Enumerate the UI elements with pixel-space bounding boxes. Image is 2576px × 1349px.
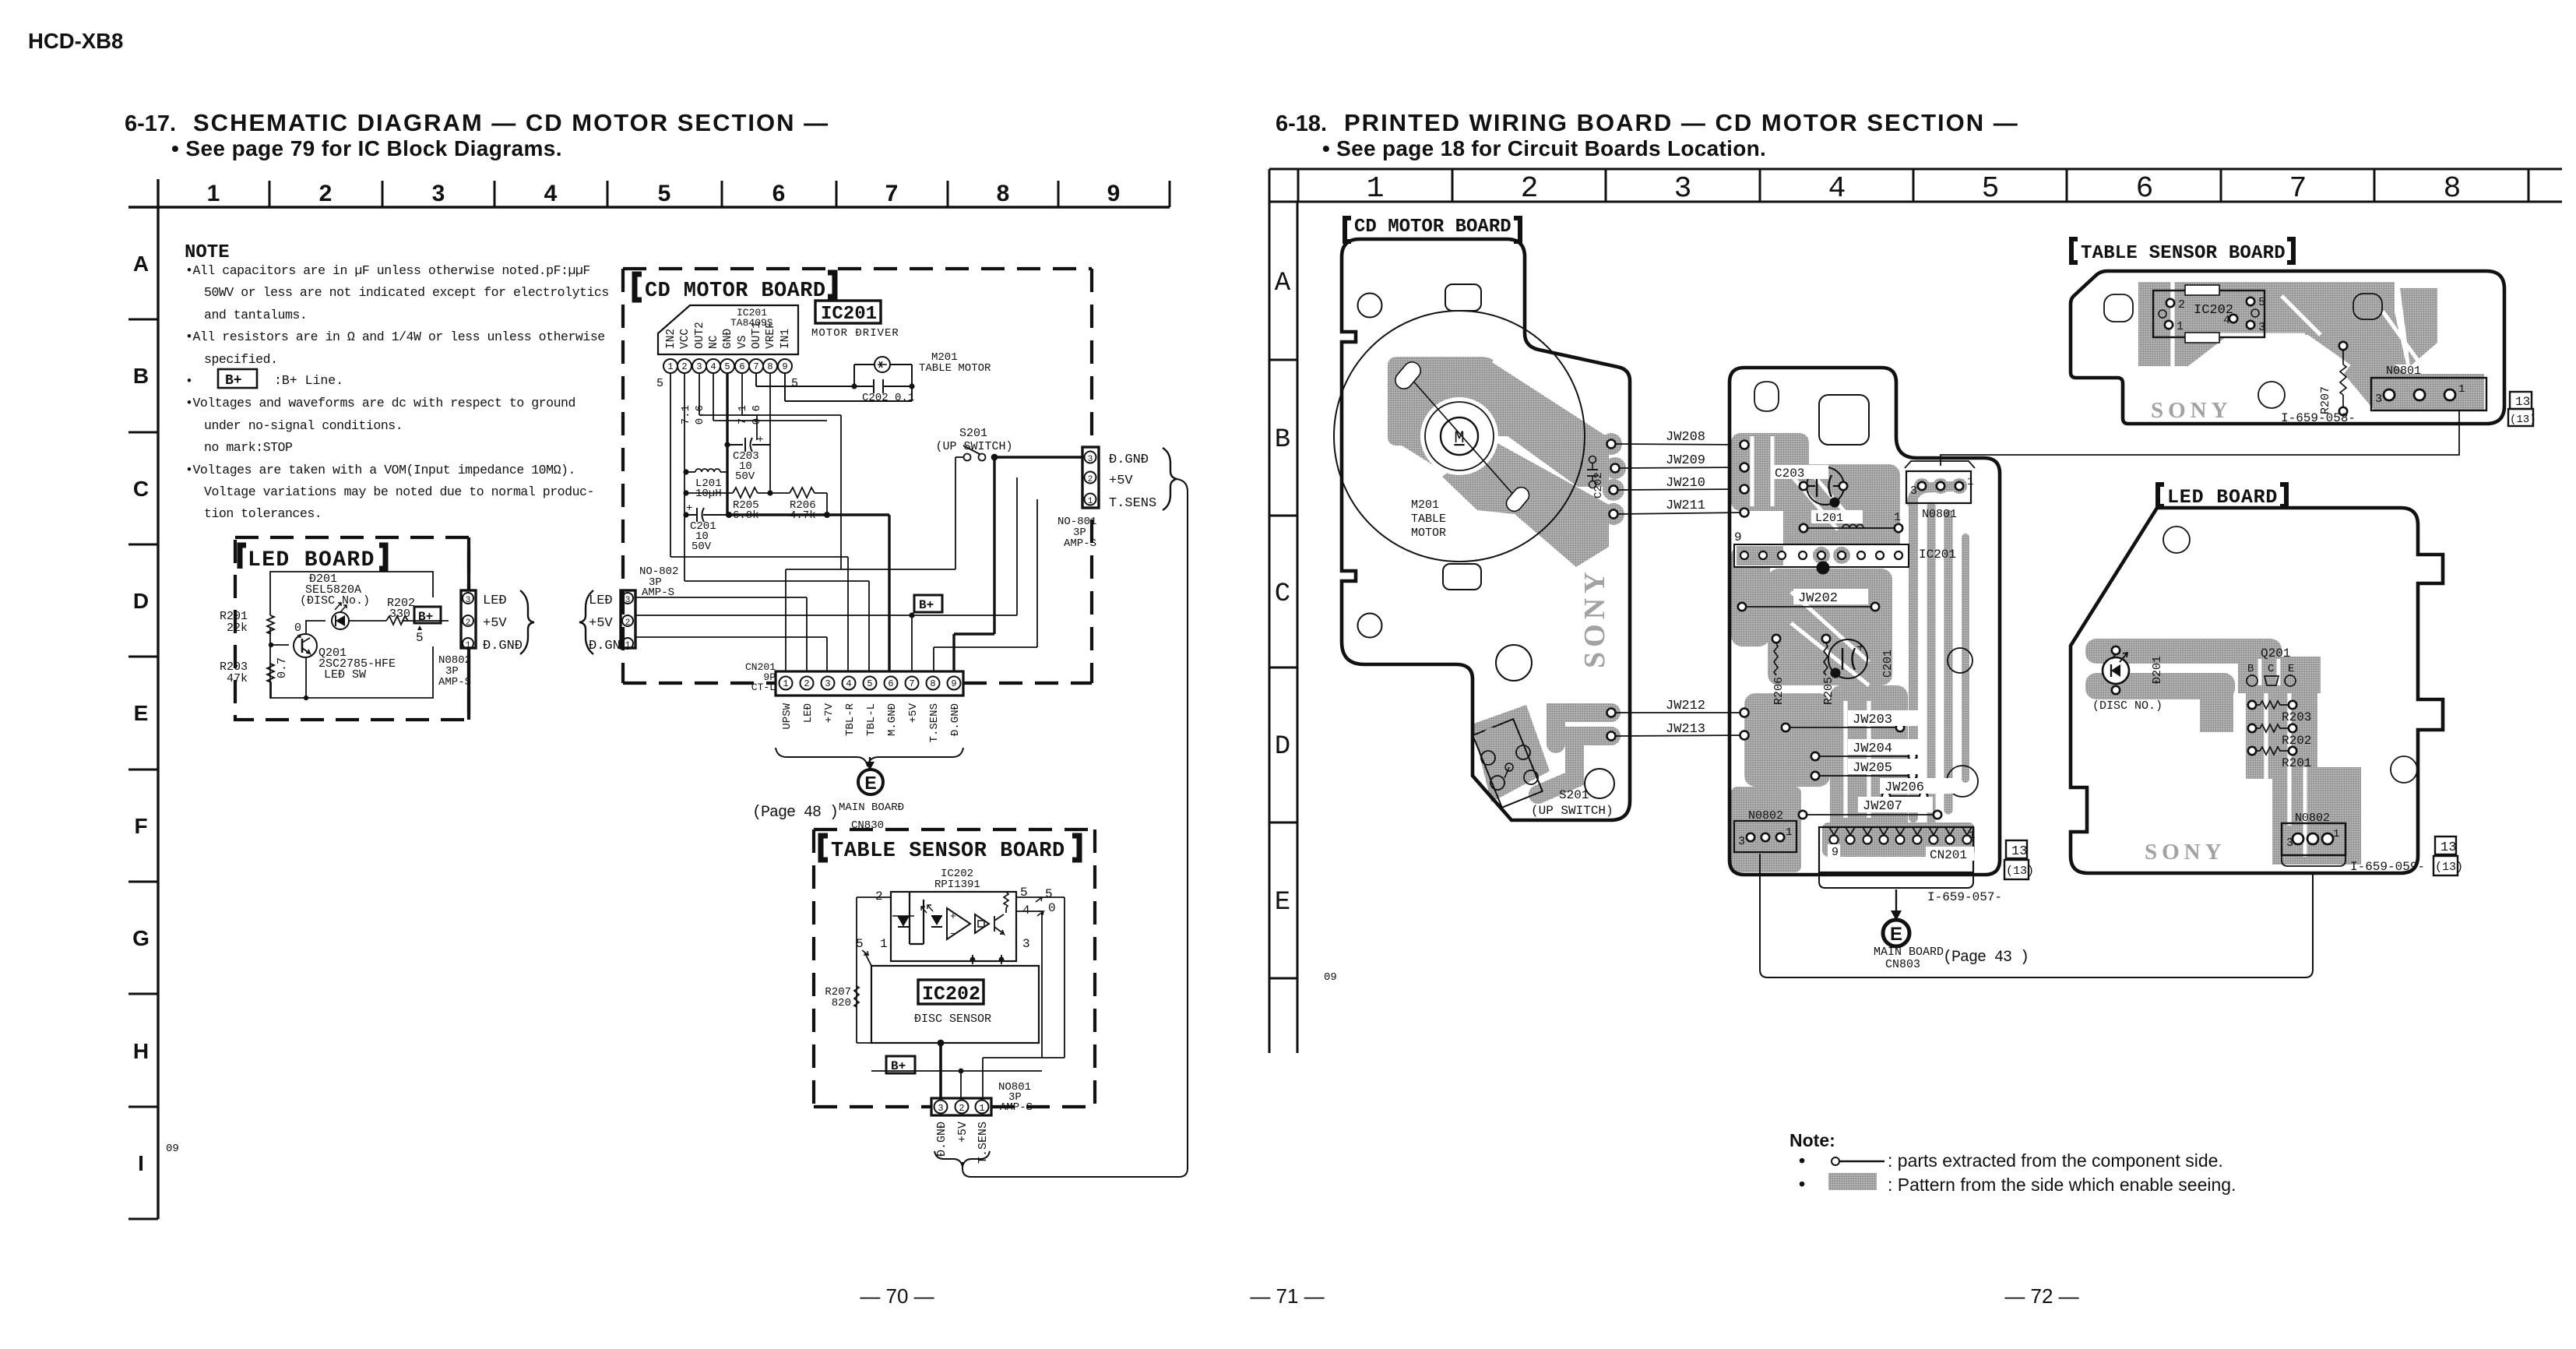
svg-text:−: − <box>950 928 956 940</box>
svg-text:R202: R202 <box>2282 734 2311 748</box>
svg-text:09: 09 <box>1324 971 1337 984</box>
svg-text:T.SENS: T.SENS <box>1109 496 1156 511</box>
svg-text:6: 6 <box>772 181 786 206</box>
svg-text:7: 7 <box>909 678 914 689</box>
svg-text:: Pattern from the side which: : Pattern from the side which enable see… <box>1888 1175 2236 1195</box>
svg-text:9: 9 <box>782 361 787 372</box>
svg-text:•: • <box>1799 1150 1805 1171</box>
svg-text:F: F <box>134 814 147 838</box>
svg-text:C: C <box>1275 579 1290 609</box>
svg-text:Đ.GNĐ: Đ.GNĐ <box>483 639 523 653</box>
svg-text:1: 1 <box>1367 172 1385 206</box>
svg-text:+: + <box>1856 641 1864 656</box>
svg-text:3: 3 <box>696 361 702 372</box>
svg-text:under no-signal conditions.: under no-signal conditions. <box>204 418 403 433</box>
svg-text:VCC: VCC <box>679 329 692 349</box>
svg-text:1: 1 <box>1894 511 1901 524</box>
svg-text:E: E <box>864 773 876 793</box>
svg-text:S201: S201 <box>959 427 987 440</box>
svg-text:AMP-S: AMP-S <box>1000 1101 1033 1114</box>
svg-text:330: 330 <box>389 608 410 621</box>
svg-text:2: 2 <box>804 678 809 689</box>
svg-text:M.GNĐ: M.GNĐ <box>886 703 899 736</box>
svg-text:no mark:STOP: no mark:STOP <box>204 440 293 455</box>
svg-text:09: 09 <box>166 1143 179 1155</box>
svg-text:T.SENS: T.SENS <box>977 1122 990 1164</box>
svg-text:LED BOARD: LED BOARD <box>2167 486 2278 509</box>
svg-text:6: 6 <box>2136 172 2154 206</box>
svg-text:•: • <box>185 374 192 389</box>
svg-text:GNĐ: GNĐ <box>722 329 734 349</box>
svg-text:7: 7 <box>2289 172 2307 206</box>
svg-text:3: 3 <box>1674 172 1692 206</box>
svg-text:5: 5 <box>724 361 730 372</box>
svg-text:3: 3 <box>938 1103 943 1114</box>
svg-text:(UP SWITCH): (UP SWITCH) <box>935 440 1012 453</box>
svg-text:A: A <box>133 252 149 276</box>
svg-text:0: 0 <box>1048 901 1056 915</box>
svg-text:4: 4 <box>2223 314 2230 327</box>
svg-text:C201: C201 <box>1881 650 1895 678</box>
svg-text:3: 3 <box>1738 835 1745 848</box>
svg-text:50V: 50V <box>692 541 712 553</box>
svg-text:(ĐISC No.): (ĐISC No.) <box>300 594 370 608</box>
svg-text:LED BOARD: LED BOARD <box>248 548 375 572</box>
svg-text:ĐISC SENSOR: ĐISC SENSOR <box>914 1013 991 1026</box>
svg-text:4: 4 <box>846 678 851 689</box>
svg-text:D: D <box>1275 732 1290 762</box>
svg-text:2: 2 <box>319 181 333 206</box>
svg-text:specified.: specified. <box>204 352 278 367</box>
svg-text:JW202: JW202 <box>1798 591 1838 606</box>
svg-text:9: 9 <box>1734 530 1742 544</box>
svg-text:CN201: CN201 <box>1930 848 1967 862</box>
svg-text:TBL-L: TBL-L <box>865 703 878 736</box>
svg-text:JW213: JW213 <box>1666 722 1705 737</box>
svg-text:2: 2 <box>875 889 883 903</box>
svg-text:4: 4 <box>710 361 716 372</box>
svg-text:• See page 18 for Circuit Boar: • See page 18 for Circuit Boards Locatio… <box>1322 136 1766 160</box>
svg-text:D: D <box>133 589 149 613</box>
svg-text:•Voltages and waveforms are dc: •Voltages and waveforms are dc with resp… <box>185 396 575 410</box>
svg-text:IC202: IC202 <box>922 983 980 1006</box>
svg-text:S201: S201 <box>1559 788 1589 802</box>
svg-text:B+: B+ <box>225 373 242 389</box>
svg-text:R201: R201 <box>2282 756 2311 770</box>
svg-text:LEĐ: LEĐ <box>589 593 613 608</box>
svg-text:CT-L: CT-L <box>751 682 776 693</box>
svg-text:AMP-S: AMP-S <box>1064 537 1096 550</box>
svg-text:H: H <box>133 1039 149 1063</box>
svg-text:C202 0.1: C202 0.1 <box>862 392 914 404</box>
svg-text:B+: B+ <box>919 598 934 612</box>
svg-text:Đ.GNĐ: Đ.GNĐ <box>1109 453 1149 467</box>
svg-text:SONY: SONY <box>1578 567 1611 668</box>
svg-text:N0802: N0802 <box>1748 809 1783 822</box>
svg-text:8: 8 <box>930 678 935 689</box>
svg-text:3: 3 <box>1910 484 1917 498</box>
svg-text:B: B <box>2247 663 2254 675</box>
svg-text:1: 1 <box>1969 829 1975 842</box>
svg-text:SONY: SONY <box>2151 398 2233 423</box>
svg-text:1: 1 <box>2333 828 2339 840</box>
svg-text:1: 1 <box>1088 497 1093 506</box>
svg-text:UPSW: UPSW <box>781 703 794 729</box>
svg-text:tion tolerances.: tion tolerances. <box>204 506 322 521</box>
svg-text:2: 2 <box>1088 475 1093 484</box>
svg-text:+5V: +5V <box>956 1122 970 1143</box>
svg-text:3: 3 <box>625 596 631 605</box>
svg-text:3: 3 <box>2375 393 2382 406</box>
svg-text:Q201: Q201 <box>2261 646 2290 660</box>
svg-text:TABLE SENSOR BOARD: TABLE SENSOR BOARD <box>831 840 1065 863</box>
svg-text:C: C <box>2268 663 2274 675</box>
svg-text:OUT2: OUT2 <box>694 322 706 349</box>
svg-text:IC201: IC201 <box>1919 548 1956 562</box>
svg-text:3: 3 <box>2286 837 2293 850</box>
svg-text:I-659-057-: I-659-057- <box>1927 890 2002 904</box>
svg-text:TA8409S: TA8409S <box>730 317 773 329</box>
svg-text:7: 7 <box>753 361 758 372</box>
svg-text:MOTOR ĐRIVER: MOTOR ĐRIVER <box>811 327 899 340</box>
svg-text:2: 2 <box>466 618 471 628</box>
svg-text:+: + <box>757 434 763 446</box>
svg-text:— 70 —: — 70 — <box>860 1284 934 1308</box>
svg-text:VS: VS <box>737 336 749 349</box>
svg-text:•All resistors are in Ω and 1/: •All resistors are in Ω and 1/4W or less… <box>185 329 605 344</box>
svg-text:1: 1 <box>2458 383 2465 396</box>
svg-text:2: 2 <box>1521 172 1539 206</box>
svg-text:B+: B+ <box>418 610 433 624</box>
svg-text:+: + <box>950 910 956 922</box>
svg-text:NC: NC <box>708 335 720 349</box>
svg-text:9: 9 <box>951 678 956 689</box>
svg-text:MAIN BOARĐ: MAIN BOARĐ <box>839 801 904 814</box>
svg-text:(DISC NO.): (DISC NO.) <box>2092 699 2163 713</box>
svg-text:LEĐ SW: LEĐ SW <box>324 668 366 682</box>
svg-text:• See page 79 for IC Block Dia: • See page 79 for IC Block Diagrams. <box>171 136 562 160</box>
svg-text:E: E <box>1275 888 1290 918</box>
svg-text:I-659-058-: I-659-058- <box>2281 411 2356 425</box>
svg-text:3: 3 <box>1088 455 1093 464</box>
svg-text:820: 820 <box>832 997 851 1009</box>
svg-text:9: 9 <box>1107 181 1121 206</box>
svg-text:TABLE: TABLE <box>1411 512 1446 526</box>
svg-text:(13): (13) <box>2435 861 2463 874</box>
svg-text:— 72 —: — 72 — <box>2004 1284 2078 1308</box>
svg-text:5: 5 <box>791 377 798 390</box>
svg-text:NOTE: NOTE <box>185 242 230 263</box>
svg-text:4: 4 <box>1828 172 1846 206</box>
svg-text:Đ.GNĐ: Đ.GNĐ <box>949 703 962 736</box>
svg-text:JW206: JW206 <box>1884 780 1924 795</box>
svg-text:1: 1 <box>2177 320 2184 333</box>
svg-text:1: 1 <box>979 1103 984 1114</box>
svg-text:JW205: JW205 <box>1853 761 1892 776</box>
svg-text:5: 5 <box>658 181 671 206</box>
svg-text:R207: R207 <box>2319 386 2332 414</box>
svg-text:(Page 48 ): (Page 48 ) <box>752 804 838 822</box>
svg-text:+5V: +5V <box>589 616 613 631</box>
svg-text:4: 4 <box>544 181 558 206</box>
svg-text:+5V: +5V <box>1109 474 1133 488</box>
svg-text:5: 5 <box>867 678 872 689</box>
svg-text:13: 13 <box>2441 840 2456 855</box>
svg-text:JW204: JW204 <box>1853 741 1892 756</box>
svg-text:JW210: JW210 <box>1666 476 1705 491</box>
svg-text:7.1: 7.1 <box>680 405 692 424</box>
svg-text:JW207: JW207 <box>1863 799 1902 814</box>
svg-text:R206: R206 <box>1772 677 1786 705</box>
svg-text:MOTOR: MOTOR <box>1411 527 1446 540</box>
svg-text:LEĐ: LEĐ <box>483 593 507 608</box>
svg-text:5: 5 <box>1982 172 2000 206</box>
svg-text:+5V: +5V <box>907 703 920 723</box>
svg-text:A: A <box>1275 269 1291 298</box>
svg-text:R205: R205 <box>1822 677 1835 705</box>
svg-text:+5V: +5V <box>483 616 507 631</box>
svg-text:JW211: JW211 <box>1666 498 1705 513</box>
svg-text:9: 9 <box>1832 846 1839 859</box>
svg-text:N0802: N0802 <box>2295 812 2330 825</box>
svg-text:6: 6 <box>888 678 893 689</box>
svg-text:C202: C202 <box>1592 472 1605 498</box>
svg-text:5: 5 <box>656 377 663 390</box>
svg-text:8: 8 <box>767 361 772 372</box>
svg-text:Voltage variations may be note: Voltage variations may be noted due to n… <box>204 484 594 499</box>
svg-text:Đ201: Đ201 <box>2151 656 2164 684</box>
svg-text:7: 7 <box>885 181 899 206</box>
svg-text:CD MOTOR BOARD: CD MOTOR BOARD <box>1354 217 1511 238</box>
svg-text:10µH: 10µH <box>695 488 722 500</box>
svg-text:13: 13 <box>2515 395 2530 409</box>
svg-text:TBL-R: TBL-R <box>844 703 857 736</box>
svg-text:3: 3 <box>2258 321 2265 334</box>
svg-text:IN2: IN2 <box>665 329 677 349</box>
svg-text:13: 13 <box>2011 844 2027 859</box>
svg-text:JW212: JW212 <box>1666 699 1705 713</box>
svg-text:5: 5 <box>416 631 424 645</box>
svg-text:AMP-S: AMP-S <box>438 676 471 689</box>
svg-text:RPI1391: RPI1391 <box>934 879 980 891</box>
svg-text:1: 1 <box>1967 476 1973 488</box>
svg-text:0: 0 <box>294 622 301 635</box>
svg-text:6-18.: 6-18. <box>1276 111 1327 136</box>
svg-text:E: E <box>1890 924 1902 945</box>
svg-text:8: 8 <box>2444 172 2462 206</box>
svg-text:E: E <box>134 701 149 725</box>
svg-text:(13): (13) <box>2510 414 2536 426</box>
svg-text:50WV or less are not indicated: 50WV or less are not indicated except fo… <box>204 285 609 300</box>
svg-text:47k: 47k <box>227 672 248 685</box>
svg-text:(13): (13) <box>2006 865 2034 878</box>
svg-text:3: 3 <box>1022 937 1030 951</box>
svg-text:E: E <box>2288 663 2294 675</box>
svg-text:4: 4 <box>1022 903 1030 918</box>
svg-text:N0801: N0801 <box>1922 508 1957 521</box>
svg-text:50V: 50V <box>735 470 755 483</box>
svg-text:T.SENS: T.SENS <box>928 703 941 742</box>
svg-text:B: B <box>133 364 149 388</box>
svg-text:•All capacitors are in µF unle: •All capacitors are in µF unless otherwi… <box>185 263 590 278</box>
svg-text:PRINTED WIRING BOARD — CD MOTO: PRINTED WIRING BOARD — CD MOTOR SECTION … <box>1344 109 2019 136</box>
svg-text:1: 1 <box>207 181 220 206</box>
svg-text:N0801: N0801 <box>2386 365 2421 378</box>
svg-text:•Voltages are taken with a VOM: •Voltages are taken with a VOM(Input imp… <box>185 463 575 477</box>
svg-text:Note:: Note: <box>1789 1130 1835 1150</box>
svg-text:: parts extracted from the com: : parts extracted from the component sid… <box>1888 1150 2223 1171</box>
svg-text:HCD-XB8: HCD-XB8 <box>28 29 123 53</box>
svg-text:C203: C203 <box>1775 467 1804 481</box>
svg-text:0.7: 0.7 <box>276 657 289 678</box>
svg-text:3: 3 <box>432 181 445 206</box>
svg-text:SCHEMATIC DIAGRAM — CD MOTOR S: SCHEMATIC DIAGRAM — CD MOTOR SECTION — <box>193 109 829 136</box>
svg-text:TABLE SENSOR BOARD: TABLE SENSOR BOARD <box>2081 243 2286 264</box>
svg-text:R203: R203 <box>2282 710 2311 724</box>
svg-text:6-17.: 6-17. <box>125 111 176 136</box>
svg-text:I: I <box>138 1151 144 1175</box>
svg-text:(UP SWITCH): (UP SWITCH) <box>1531 804 1614 818</box>
svg-text:5: 5 <box>1045 887 1053 901</box>
svg-text:2: 2 <box>959 1103 964 1114</box>
svg-text:1: 1 <box>625 641 631 650</box>
svg-text:G: G <box>132 926 150 950</box>
svg-text:(Page 43 ): (Page 43 ) <box>1943 949 2029 967</box>
svg-text:SONY: SONY <box>2145 840 2226 865</box>
svg-text:Đ.GNĐ: Đ.GNĐ <box>935 1122 948 1157</box>
svg-text:M201: M201 <box>1411 498 1439 512</box>
svg-text:JW209: JW209 <box>1666 453 1705 468</box>
svg-text::B+ Line.: :B+ Line. <box>274 373 343 388</box>
svg-text:and tantalums.: and tantalums. <box>204 308 307 322</box>
svg-text:1: 1 <box>667 361 673 372</box>
svg-text:CN803: CN803 <box>1885 958 1920 971</box>
svg-text:8: 8 <box>997 181 1010 206</box>
svg-text:C: C <box>133 477 149 501</box>
svg-text:2: 2 <box>681 361 687 372</box>
svg-text:JW208: JW208 <box>1666 430 1705 445</box>
svg-text:1: 1 <box>783 678 788 689</box>
svg-text:1: 1 <box>880 937 888 951</box>
svg-text:IN1: IN1 <box>779 329 792 349</box>
svg-text:3: 3 <box>466 596 471 605</box>
svg-text:1: 1 <box>1786 826 1792 839</box>
svg-text:2: 2 <box>625 618 631 628</box>
svg-text:2: 2 <box>2178 298 2185 312</box>
svg-text:5: 5 <box>2258 296 2265 309</box>
svg-text:CD MOTOR BOARD: CD MOTOR BOARD <box>645 280 825 303</box>
svg-text:3: 3 <box>825 678 830 689</box>
svg-text:I-659-059-: I-659-059- <box>2350 860 2425 874</box>
svg-text:+7V: +7V <box>823 703 836 723</box>
svg-text:B+: B+ <box>891 1059 906 1073</box>
svg-text:L201: L201 <box>1815 512 1843 525</box>
svg-text:JW203: JW203 <box>1853 713 1892 727</box>
svg-text:B: B <box>1275 425 1290 455</box>
svg-text:MAIN BOARD: MAIN BOARD <box>1874 946 1944 959</box>
svg-text:LEĐ: LEĐ <box>802 703 815 723</box>
svg-text:6: 6 <box>739 361 744 372</box>
svg-text:— 71 —: — 71 — <box>1250 1284 1324 1308</box>
svg-text:IC201: IC201 <box>821 304 877 325</box>
svg-text:•: • <box>1799 1174 1805 1194</box>
svg-text:22k: 22k <box>227 622 248 635</box>
svg-text:TABLE MOTOR: TABLE MOTOR <box>919 362 991 375</box>
